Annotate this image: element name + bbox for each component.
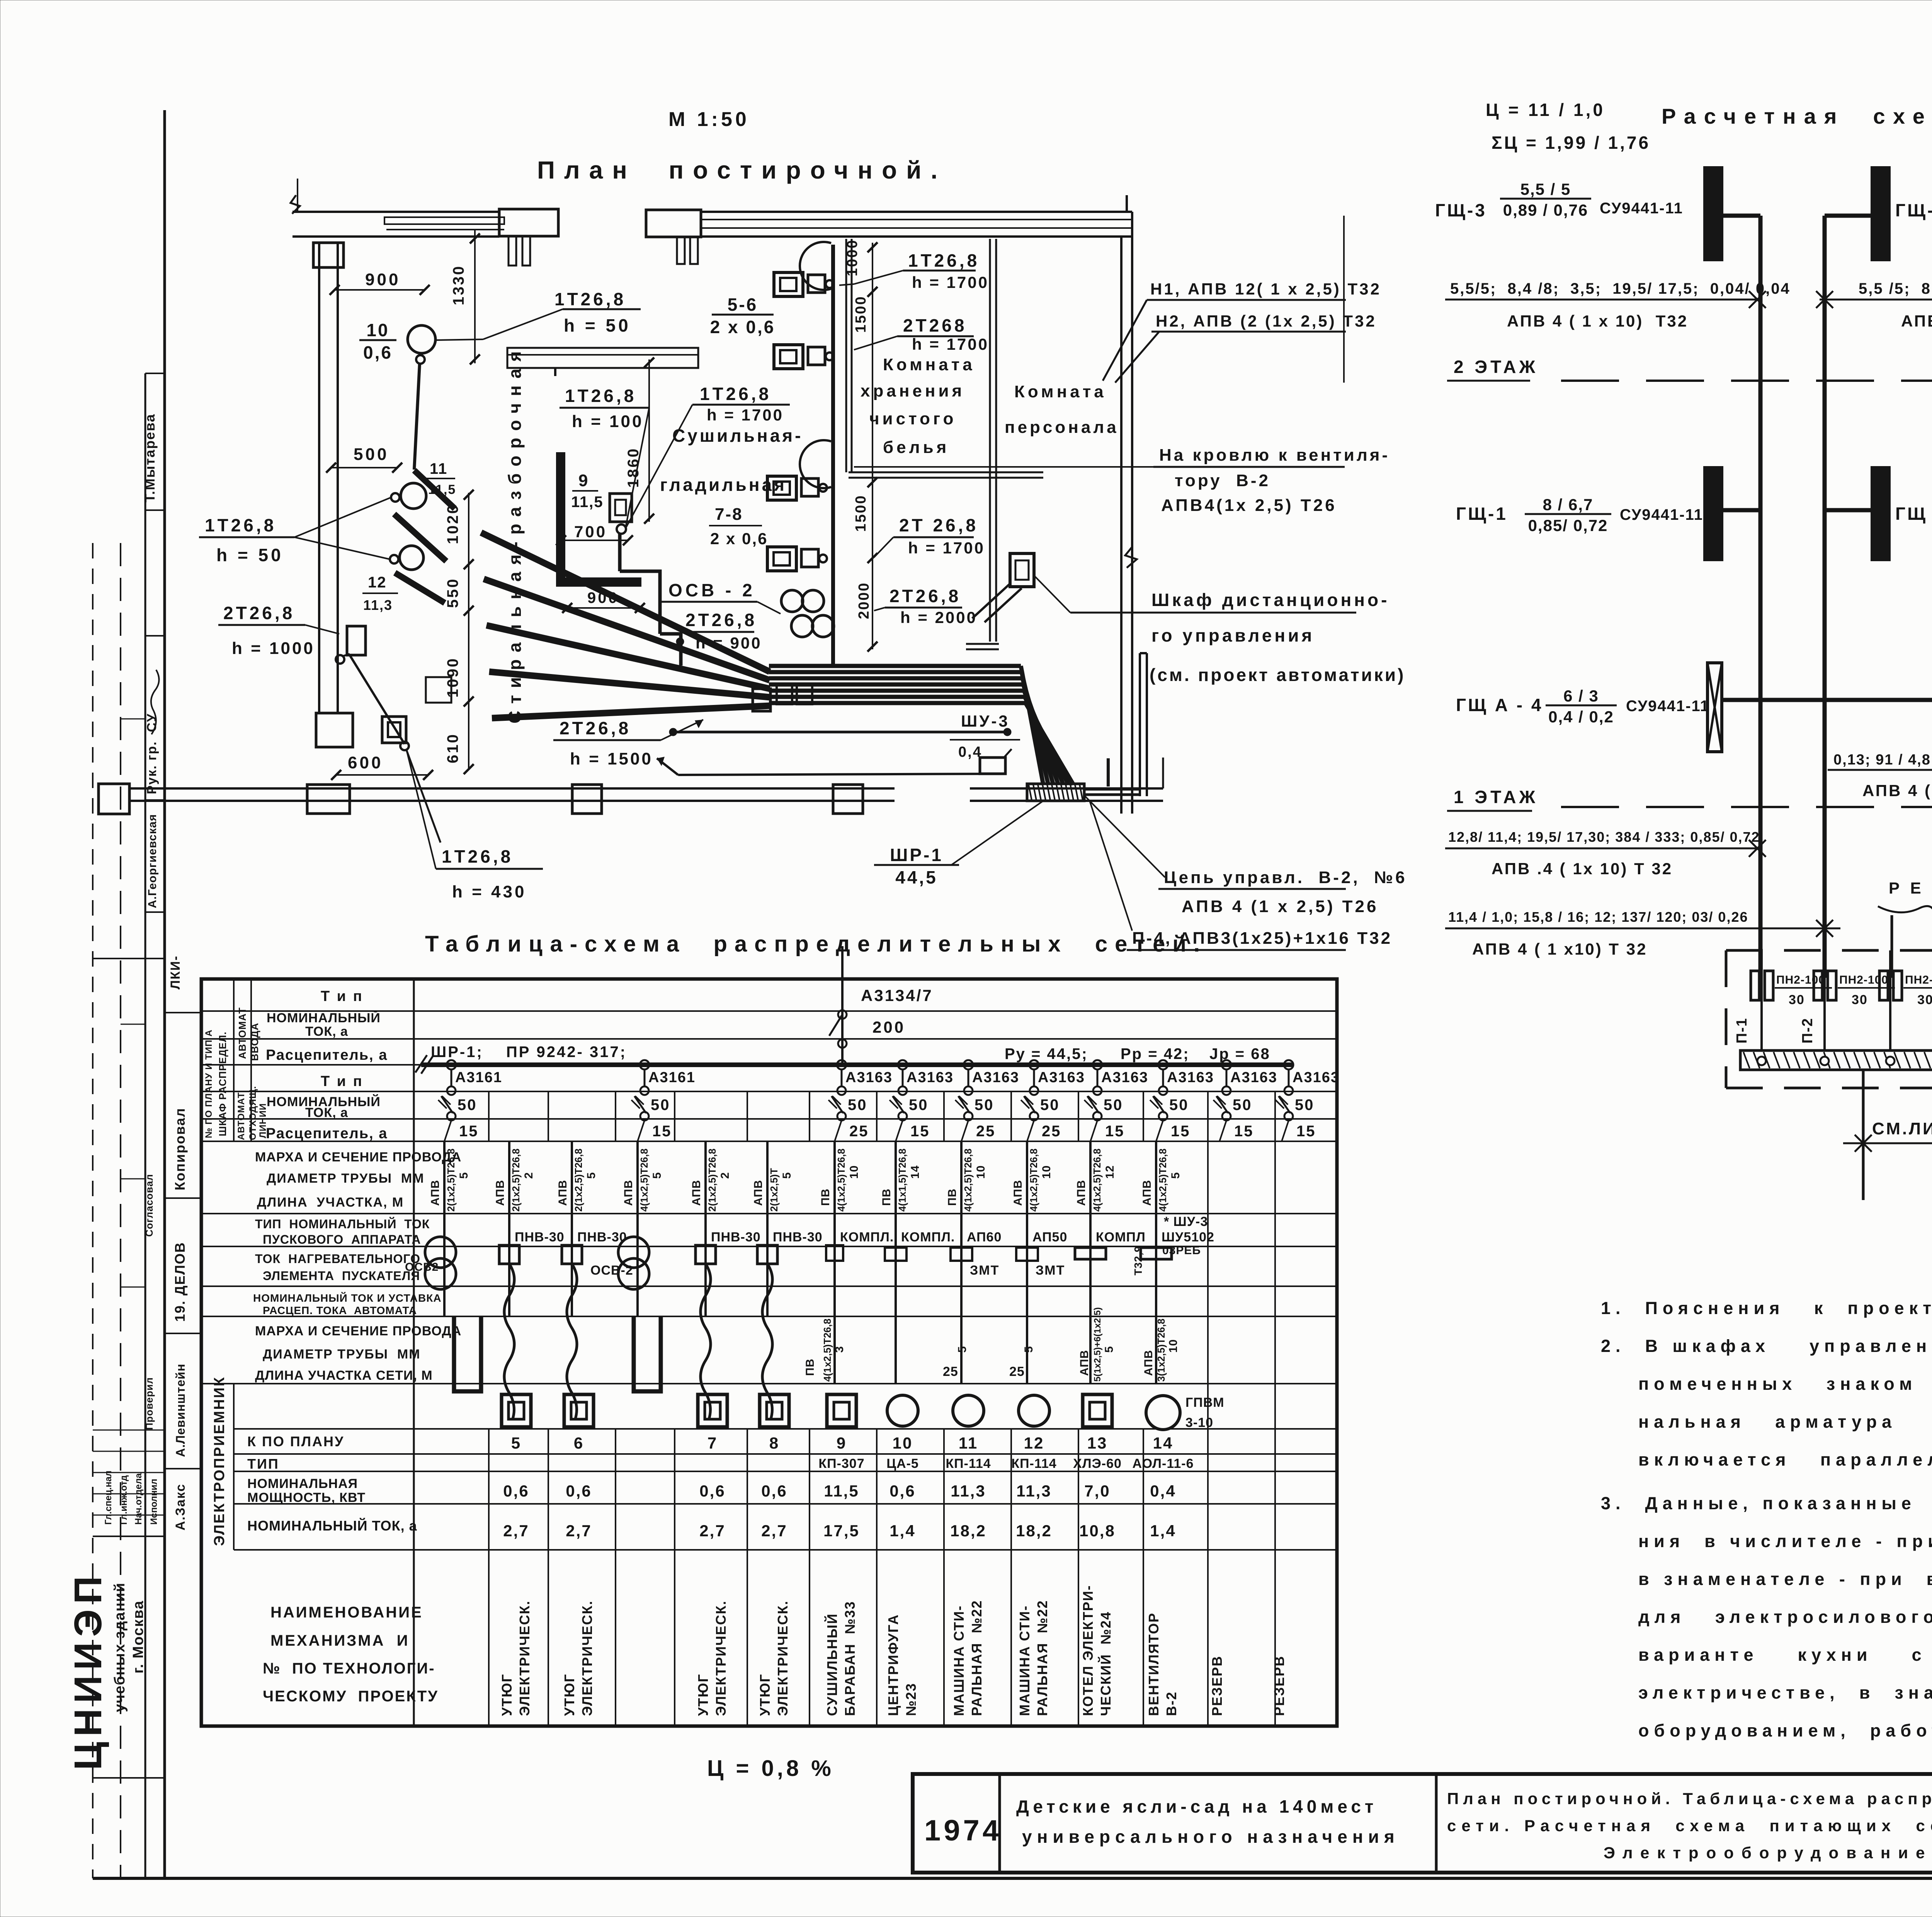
svg-text:25: 25 xyxy=(849,1123,869,1140)
svg-text:Гл.инж.отд: Гл.инж.отд xyxy=(119,1475,129,1525)
far right edge line xyxy=(1343,216,1345,383)
svg-text:ШУ-3: ШУ-3 xyxy=(961,712,1010,730)
svg-text:НОМИНАЛЬНЫЙ ТОК, а: НОМИНАЛЬНЫЙ ТОК, а xyxy=(247,1517,417,1534)
feeder drops through fuses xyxy=(1760,950,1763,1050)
svg-text:Комната: Комната xyxy=(883,355,975,374)
svg-text:1500: 1500 xyxy=(853,494,869,532)
svg-text:КОМПЛ.: КОМПЛ. xyxy=(840,1230,894,1245)
svg-text:50: 50 xyxy=(1169,1096,1189,1113)
svg-text:* ШУ-3: * ШУ-3 xyxy=(1164,1214,1208,1229)
svg-text:в знаменателе - при варианте: в знаменателе - при варианте с люминисце… xyxy=(1638,1569,1932,1589)
svg-text:h = 1500: h = 1500 xyxy=(570,749,653,768)
svg-text:УТЮГ: УТЮГ xyxy=(695,1674,711,1716)
svg-text:ЗМТ: ЗМТ xyxy=(970,1263,999,1278)
svg-text:АВТОМАТ: АВТОМАТ xyxy=(236,1007,248,1059)
svg-text:ЭЛЕКТРИЧЕСК.: ЭЛЕКТРИЧЕСК. xyxy=(713,1600,729,1716)
svg-text:0,89 / 0,76: 0,89 / 0,76 xyxy=(1503,201,1588,219)
bus row thick xyxy=(421,1062,1293,1067)
top wall right segment xyxy=(646,210,701,237)
svg-text:h = 2000: h = 2000 xyxy=(900,608,977,627)
svg-text:0,6: 0,6 xyxy=(503,1482,529,1500)
svg-text:1330: 1330 xyxy=(450,265,467,305)
svg-text:4(1х1,5)Т26,8: 4(1х1,5)Т26,8 xyxy=(896,1149,908,1212)
svg-text:АПВ 4 (1 х 10) Т32: АПВ 4 (1 х 10) Т32 xyxy=(1901,312,1932,330)
svg-text:Нач.отдела: Нач.отдела xyxy=(133,1473,144,1525)
svg-text:15: 15 xyxy=(910,1123,930,1140)
svg-text:ПВ: ПВ xyxy=(880,1188,893,1206)
svg-text:2,7: 2,7 xyxy=(503,1522,529,1540)
svg-text:200: 200 xyxy=(872,1018,905,1036)
pushbutton boxes xyxy=(753,689,770,711)
svg-text:1,4: 1,4 xyxy=(889,1522,915,1540)
svg-text:ПВ: ПВ xyxy=(946,1188,959,1206)
svg-text:15: 15 xyxy=(1171,1123,1190,1140)
svg-text:ЛКИ-: ЛКИ- xyxy=(168,955,183,989)
incomer breaker A3134/7 xyxy=(841,979,844,1065)
pusk row devices xyxy=(443,1214,446,1316)
svg-text:3(1х2,5)Т26,8: 3(1х2,5)Т26,8 xyxy=(1155,1319,1167,1382)
svg-text:ГЩ-3: ГЩ-3 xyxy=(1435,200,1487,220)
TITLE BLOCK xyxy=(913,1774,1932,1873)
svg-text:А3163: А3163 xyxy=(972,1069,1019,1086)
svg-text:МЕХАНИЗМА И: МЕХАНИЗМА И xyxy=(270,1632,409,1649)
svg-text:2(1х2,5)Т: 2(1х2,5)Т xyxy=(768,1168,780,1212)
svg-text:11,3: 11,3 xyxy=(1016,1482,1051,1500)
svg-text:1500: 1500 xyxy=(853,295,869,333)
svg-text:ПН2-100: ПН2-100 xyxy=(1839,974,1888,986)
panel GSch-2 xyxy=(1872,467,1889,560)
svg-text:учебных зданий: учебных зданий xyxy=(112,1582,128,1712)
svg-text:12: 12 xyxy=(1104,1165,1116,1179)
bus2 vertical xyxy=(1823,216,1827,978)
svg-text:3. Данные, показанные дроб: 3. Данные, показанные дробью, означают д… xyxy=(1601,1493,1932,1513)
svg-text:П-2: П-2 xyxy=(1799,1018,1816,1044)
svg-text:АПВ: АПВ xyxy=(1142,1350,1155,1376)
pier top wall left-right end xyxy=(499,209,558,236)
svg-text:50: 50 xyxy=(975,1096,994,1113)
svg-text:44,5: 44,5 xyxy=(895,867,938,887)
svg-text:БАРАБАН №33: БАРАБАН №33 xyxy=(842,1601,858,1716)
svg-text:1. Пояснения к проекту: 1. Пояснения к проекту и условные обозна… xyxy=(1601,1298,1932,1318)
svg-text:Т и п: Т и п xyxy=(321,988,364,1004)
svg-text:АПВ: АПВ xyxy=(1141,1180,1153,1206)
svg-text:5: 5 xyxy=(457,1172,470,1179)
svg-text:тору В-2: тору В-2 xyxy=(1175,471,1270,490)
svg-text:В-2: В-2 xyxy=(1163,1691,1179,1716)
svg-text:ЭЛЕКТРИЧЕСК.: ЭЛЕКТРИЧЕСК. xyxy=(775,1600,791,1716)
dim 1330 xyxy=(474,230,476,363)
svg-text:ОСВ-2: ОСВ-2 xyxy=(590,1263,633,1278)
svg-text:РЕЗЕРВ: РЕЗЕРВ xyxy=(1209,1655,1225,1716)
svg-text:Рр = 42;: Рр = 42; xyxy=(1121,1045,1190,1062)
svg-text:ПНВ-30: ПНВ-30 xyxy=(577,1230,627,1245)
svg-text:МАШИНА СТИ-: МАШИНА СТИ- xyxy=(951,1605,967,1716)
svg-text:15: 15 xyxy=(1296,1123,1316,1140)
svg-text:РАЛЬНАЯ №22: РАЛЬНАЯ №22 xyxy=(1034,1600,1050,1716)
svg-text:Электрооборудование.: Электрооборудование. xyxy=(1604,1844,1932,1862)
svg-text:КОМПЛ.: КОМПЛ. xyxy=(901,1230,955,1245)
svg-text:ВЕНТИЛЯТОР: ВЕНТИЛЯТОР xyxy=(1146,1612,1162,1716)
svg-text:2Т268: 2Т268 xyxy=(903,315,967,335)
svg-text:4(1х2,5)Т26,8: 4(1х2,5)Т26,8 xyxy=(1091,1149,1103,1212)
svg-text:25: 25 xyxy=(1042,1123,1061,1140)
svg-text:0,4: 0,4 xyxy=(1150,1482,1176,1500)
svg-text:НОМИНАЛЬНАЯ: НОМИНАЛЬНАЯ xyxy=(247,1476,358,1491)
svg-text:А3163: А3163 xyxy=(1230,1069,1277,1086)
svg-text:h = 1700: h = 1700 xyxy=(912,335,989,353)
svg-text:0,6: 0,6 xyxy=(699,1482,725,1500)
svg-text:1 ЭТАЖ: 1 ЭТАЖ xyxy=(1454,787,1538,807)
svg-text:АПВ: АПВ xyxy=(556,1180,569,1206)
svg-text:3-10: 3-10 xyxy=(1185,1415,1213,1430)
svg-text:Т.Мытарева: Т.Мытарева xyxy=(142,414,158,502)
svg-text:2,7: 2,7 xyxy=(761,1522,787,1540)
svg-text:СУ9441-11: СУ9441-11 xyxy=(1626,698,1709,715)
svg-text:ПН2-100: ПН2-100 xyxy=(1776,974,1825,986)
svg-text:ПВ: ПВ xyxy=(804,1359,816,1376)
left pier xyxy=(313,243,344,267)
svg-text:ДЛИНА УЧАСТКА, М: ДЛИНА УЧАСТКА, М xyxy=(257,1195,404,1210)
svg-text:включается параллельно кат: включается параллельно катушке. xyxy=(1638,1450,1932,1469)
svg-text:2 х 0,6: 2 х 0,6 xyxy=(710,529,768,548)
svg-text:ШР-1;: ШР-1; xyxy=(431,1044,483,1061)
svg-text:550: 550 xyxy=(444,577,461,608)
svg-text:5,5 /5; 8,4 ( 8; 3,5; 19,5/: 5,5 /5; 8,4 ( 8; 3,5; 19,5/ 17,5; 0,04 xyxy=(1859,280,1932,297)
vertical pipe right xyxy=(1139,653,1141,796)
svg-text:СУ9441-11: СУ9441-11 xyxy=(1600,200,1683,217)
svg-text:ГПВМ: ГПВМ xyxy=(1185,1395,1225,1410)
svg-text:0,13; 91 / 4,8; 30; 180) 90; 0: 0,13; 91 / 4,8; 30; 180) 90; 0,4 / 0,2 xyxy=(1833,752,1932,768)
svg-text:АПВ: АПВ xyxy=(1075,1180,1088,1206)
right wall xyxy=(1120,237,1122,814)
svg-text:Расчетная схема питающих се: Расчетная схема питающих сетей xyxy=(1662,104,1932,128)
svg-text:помеченных знаком *), допо: помеченных знаком *), дополнительно уста… xyxy=(1638,1374,1932,1394)
svg-text:10,8: 10,8 xyxy=(1079,1522,1116,1540)
wall cabinet device xyxy=(1010,553,1034,587)
svg-text:h = 1700: h = 1700 xyxy=(912,273,989,291)
svg-text:ЭЛЕКТРОПРИЕМНИК: ЭЛЕКТРОПРИЕМНИК xyxy=(211,1376,228,1546)
svg-text:А3161: А3161 xyxy=(455,1069,502,1086)
svg-text:СУ9441-11: СУ9441-11 xyxy=(1620,506,1703,523)
svg-text:ПН2-100: ПН2-100 xyxy=(1905,974,1932,986)
SHR leaders right xyxy=(1085,796,1165,877)
svg-text:Гл.спец.нал: Гл.спец.нал xyxy=(103,1471,114,1525)
svg-text:1020: 1020 xyxy=(444,504,461,544)
svg-text:4(1х2,5)Т26,8: 4(1х2,5)Т26,8 xyxy=(638,1149,650,1212)
svg-text:АП50: АП50 xyxy=(1032,1230,1067,1245)
svg-text:18,2: 18,2 xyxy=(1016,1522,1052,1540)
svg-text:АП60: АП60 xyxy=(967,1230,1002,1245)
svg-text:1Т26,8: 1Т26,8 xyxy=(565,386,636,406)
svg-text:4(1х2,5)Т26,8: 4(1х2,5)Т26,8 xyxy=(1157,1149,1168,1212)
pnv boxes xyxy=(508,1214,510,1316)
main wire bundle xyxy=(769,664,1021,668)
svg-text:ПНВ-30: ПНВ-30 xyxy=(711,1230,761,1245)
svg-text:ШУ5102: ШУ5102 xyxy=(1162,1230,1214,1245)
svg-text:11,5: 11,5 xyxy=(571,494,604,511)
svg-text:03РЕБ: 03РЕБ xyxy=(1162,1244,1201,1257)
svg-text:КОТЕЛ ЭЛЕКТРИ-: КОТЕЛ ЭЛЕКТРИ- xyxy=(1080,1585,1096,1716)
svg-text:25: 25 xyxy=(943,1364,958,1379)
svg-text:ЧЕСКИЙ №24: ЧЕСКИЙ №24 xyxy=(1097,1611,1114,1716)
svg-text:ЭЛЕМЕНТА ПУСКАТЕЛЯ: ЭЛЕМЕНТА ПУСКАТЕЛЯ xyxy=(263,1269,420,1283)
svg-text:ПР 9242- 317;: ПР 9242- 317; xyxy=(506,1044,627,1061)
SHU-3 wire xyxy=(672,731,1007,734)
svg-text:h = 1700: h = 1700 xyxy=(707,406,784,424)
svg-text:ЦЕНТРИФУГА: ЦЕНТРИФУГА xyxy=(885,1614,901,1716)
bundle link to pipe xyxy=(1107,758,1110,787)
VRU dashed box xyxy=(1726,949,1932,952)
svg-text:ЭЛЕКТРИЧЕСК.: ЭЛЕКТРИЧЕСК. xyxy=(517,1600,532,1716)
svg-text:h = 50: h = 50 xyxy=(216,545,284,565)
svg-text:г. Москва: г. Москва xyxy=(130,1600,146,1674)
svg-text:РЕЗЕРВ: РЕЗЕРВ xyxy=(1271,1655,1287,1716)
svg-text:Н1, АПВ 12( 1 х 2,5) Т32: Н1, АПВ 12( 1 х 2,5) Т32 xyxy=(1150,280,1381,298)
svg-text:2,7: 2,7 xyxy=(699,1522,725,1540)
panel GSch-3 xyxy=(1704,167,1722,260)
svg-text:2 х 0,6: 2 х 0,6 xyxy=(710,317,776,337)
svg-text:Т32,9: Т32,9 xyxy=(1132,1246,1144,1275)
svg-text:12,8/ 11,4; 19,5/ 17,30; 384 /: 12,8/ 11,4; 19,5/ 17,30; 384 / 333; 0,85… xyxy=(1448,829,1760,845)
svg-text:Рук. гр. СУ: Рук. гр. СУ xyxy=(145,713,159,794)
osv transformers xyxy=(781,590,803,612)
dim 1860 xyxy=(648,359,650,522)
svg-text:8: 8 xyxy=(769,1434,779,1452)
svg-text:7: 7 xyxy=(707,1434,718,1452)
svg-text:1Т26,8: 1Т26,8 xyxy=(554,289,626,309)
bar connection circles xyxy=(1757,1057,1766,1065)
svg-text:А3163: А3163 xyxy=(1167,1069,1214,1086)
svg-text:5: 5 xyxy=(651,1172,663,1179)
svg-text:8 / 6,7: 8 / 6,7 xyxy=(1543,495,1594,514)
svg-text:2(1х2,5)Т26,8: 2(1х2,5)Т26,8 xyxy=(706,1149,718,1212)
svg-text:17,5: 17,5 xyxy=(823,1522,860,1540)
panel GSch-4 xyxy=(1872,167,1889,260)
svg-text:АПВ 4 (1 х 2,5) Т26: АПВ 4 (1 х 2,5) Т26 xyxy=(1182,897,1378,916)
svg-text:50: 50 xyxy=(1104,1096,1123,1113)
svg-text:МАРХА И СЕЧЕНИЕ ПРОВОДА: МАРХА И СЕЧЕНИЕ ПРОВОДА xyxy=(255,1150,461,1165)
svg-text:15: 15 xyxy=(1234,1123,1254,1140)
machine arcs xyxy=(800,242,831,290)
svg-text:ТОК, а: ТОК, а xyxy=(305,1105,348,1120)
svg-text:Согласовал: Согласовал xyxy=(143,1174,155,1237)
svg-text:ДИАМЕТР ТРУБЫ ММ: ДИАМЕТР ТРУБЫ ММ xyxy=(267,1171,425,1186)
svg-text:50: 50 xyxy=(848,1096,867,1113)
svg-text:КП-114: КП-114 xyxy=(1011,1456,1056,1471)
square fixture xyxy=(426,677,451,703)
svg-text:11,3: 11,3 xyxy=(363,597,393,613)
svg-text:5: 5 xyxy=(1103,1346,1116,1353)
svg-text:ОТХОДЯЩ.: ОТХОДЯЩ. xyxy=(248,1086,258,1140)
svg-text:Исполнил: Исполнил xyxy=(149,1479,159,1525)
panel GSch-1 xyxy=(1704,467,1722,560)
svg-text:Стиральная-разборочная: Стиральная-разборочная xyxy=(505,344,525,724)
svg-text:11,4 / 1,0; 15,8 / 16; 12; 137: 11,4 / 1,0; 15,8 / 16; 12; 137/ 120; 03/… xyxy=(1448,909,1748,925)
svg-text:Ру = 44,5;: Ру = 44,5; xyxy=(1005,1045,1088,1062)
svg-text:КП-307: КП-307 xyxy=(818,1456,864,1471)
svg-text:ПУСКОВОГО АППАРАТА: ПУСКОВОГО АППАРАТА xyxy=(263,1233,421,1246)
svg-text:h = 50: h = 50 xyxy=(564,315,631,335)
svg-text:12: 12 xyxy=(368,574,387,591)
svg-text:50: 50 xyxy=(909,1096,929,1113)
svg-text:11,5: 11,5 xyxy=(428,482,456,497)
receivers xyxy=(454,1316,481,1391)
breakers on bus xyxy=(447,1060,456,1069)
svg-text:10: 10 xyxy=(893,1434,913,1452)
fuse PN2-100 #2 xyxy=(1814,971,1822,1000)
svg-text:П-1: П-1 xyxy=(1734,1018,1750,1044)
svg-text:ТИП НОМИНАЛЬНЫЙ ТОК: ТИП НОМИНАЛЬНЫЙ ТОК xyxy=(255,1217,430,1231)
top wall left segment xyxy=(291,195,300,214)
svg-text:Т и п: Т и п xyxy=(321,1073,364,1090)
svg-text:АПВ: АПВ xyxy=(690,1180,703,1206)
svg-text:ПНВ-30: ПНВ-30 xyxy=(515,1230,565,1245)
svg-text:0,6: 0,6 xyxy=(363,342,393,363)
shelf xyxy=(507,348,698,368)
svg-text:2Т26,8: 2Т26,8 xyxy=(685,610,757,630)
svg-text:№ ПО ТЕХНОЛОГИ-: № ПО ТЕХНОЛОГИ- xyxy=(263,1660,435,1677)
svg-text:1000: 1000 xyxy=(844,239,861,276)
svg-text:14: 14 xyxy=(909,1165,922,1179)
svg-text:0,6: 0,6 xyxy=(566,1482,592,1500)
svg-text:хранения: хранения xyxy=(861,381,965,400)
svg-text:0,6: 0,6 xyxy=(761,1482,787,1500)
svg-text:ШКАФ РАСПРЕДЕЛ.: ШКАФ РАСПРЕДЕЛ. xyxy=(217,1032,228,1136)
svg-text:18,2: 18,2 xyxy=(950,1522,986,1540)
svg-text:900: 900 xyxy=(365,270,400,289)
receptacle 13/7.0 xyxy=(382,717,406,743)
svg-text:№ ПО ПЛАНУ И ТИП А: № ПО ПЛАНУ И ТИП А xyxy=(204,1030,214,1138)
svg-text:Проверил: Проверил xyxy=(143,1377,155,1430)
svg-text:А3161: А3161 xyxy=(648,1069,696,1086)
svg-text:5(1х2,5)+6(1х2,5): 5(1х2,5)+6(1х2,5) xyxy=(1092,1307,1103,1382)
left wall xyxy=(318,243,320,713)
svg-text:варианте кухни с оборудо: варианте кухни с оборудованием, работающ… xyxy=(1638,1645,1932,1665)
svg-text:2Т26,8: 2Т26,8 xyxy=(560,718,631,738)
svg-text:50: 50 xyxy=(1295,1096,1315,1113)
svg-text:АПВ4(1х 2,5) Т26: АПВ4(1х 2,5) Т26 xyxy=(1161,496,1337,515)
svg-text:2Т 26,8: 2Т 26,8 xyxy=(899,515,978,535)
fuse PN2-100 #1 xyxy=(1751,971,1759,1000)
svg-text:Сушильная-: Сушильная- xyxy=(672,426,803,446)
incomer to table xyxy=(841,946,844,979)
svg-text:го управления: го управления xyxy=(1151,625,1315,645)
svg-text:7-8: 7-8 xyxy=(715,505,743,524)
svg-text:6 / 3: 6 / 3 xyxy=(1563,687,1599,705)
svg-text:НОМИНАЛЬНЫЙ ТОК И УСТАВКА: НОМИНАЛЬНЫЙ ТОК И УСТАВКА xyxy=(253,1292,442,1304)
svg-text:4(1х2,5)Т26,8: 4(1х2,5)Т26,8 xyxy=(821,1319,833,1382)
svg-text:3: 3 xyxy=(833,1346,846,1353)
washing machines rows xyxy=(774,272,803,296)
svg-text:АВТОМАТ: АВТОМАТ xyxy=(236,1092,247,1140)
svg-text:ПНВ-30: ПНВ-30 xyxy=(773,1230,823,1245)
svg-text:Таблица-схема распределительн: Таблица-схема распределительных сетей. xyxy=(425,931,1207,957)
svg-text:ТОК НАГРЕВАТЕЛЬНОГО: ТОК НАГРЕВАТЕЛЬНОГО xyxy=(255,1252,420,1266)
svg-text:5: 5 xyxy=(1022,1346,1035,1353)
svg-text:5: 5 xyxy=(585,1172,598,1179)
svg-text:2(1х2,5)Т26,8: 2(1х2,5)Т26,8 xyxy=(510,1149,522,1212)
svg-text:АПВ 4 ( 1 х 10) Т32: АПВ 4 ( 1 х 10) Т32 xyxy=(1507,312,1688,330)
bus1 vertical xyxy=(1759,216,1763,978)
leader to SHR label xyxy=(951,801,1043,865)
svg-text:11,3: 11,3 xyxy=(951,1482,986,1500)
dim chain vertical xyxy=(468,493,469,769)
lower thin wire with arrow xyxy=(678,774,1004,775)
svg-text:АОЛ-11-6: АОЛ-11-6 xyxy=(1132,1456,1194,1471)
svg-text:ТИП: ТИП xyxy=(247,1456,279,1472)
svg-text:АПВ: АПВ xyxy=(1078,1350,1091,1376)
svg-text:ДЛИНА УЧАСТКА СЕТИ, М: ДЛИНА УЧАСТКА СЕТИ, М xyxy=(255,1368,433,1383)
svg-text:А.Левинштейн: А.Левинштейн xyxy=(173,1364,187,1457)
svg-text:ΣЦ = 1,99 / 1,76: ΣЦ = 1,99 / 1,76 xyxy=(1492,133,1650,153)
svg-text:1Т26,8: 1Т26,8 xyxy=(205,515,276,535)
svg-text:К ПО ПЛАНУ: К ПО ПЛАНУ xyxy=(247,1433,344,1449)
svg-text:Детские ясли-сад на 140мест: Детские ясли-сад на 140мест xyxy=(1016,1796,1377,1817)
L-shaped wall stub xyxy=(556,452,565,577)
svg-text:А.Закс: А.Закс xyxy=(173,1483,188,1531)
svg-text:2: 2 xyxy=(522,1172,535,1179)
svg-text:АПВ 4 ( 1 х10) Т 32: АПВ 4 ( 1 х10) Т 32 xyxy=(1472,940,1647,958)
svg-text:25: 25 xyxy=(976,1123,996,1140)
svg-text:НАИМЕНОВАНИЕ: НАИМЕНОВАНИЕ xyxy=(270,1604,423,1621)
svg-text:НОМИНАЛЬНЫЙ: НОМИНАЛЬНЫЙ xyxy=(267,1010,381,1025)
svg-text:План постирочной. Таблица-схем: План постирочной. Таблица-схема распреде… xyxy=(1447,1789,1932,1808)
svg-text:для электросилового оборуд: для электросилового оборудования, в числ… xyxy=(1638,1607,1932,1627)
svg-text:2Т26,8: 2Т26,8 xyxy=(889,586,961,606)
svg-text:белья: белья xyxy=(883,438,949,457)
svg-text:оборудованием, работающим: оборудованием, работающим на газе. xyxy=(1638,1721,1932,1740)
storage south wall xyxy=(849,472,1043,473)
fan diagonals xyxy=(481,533,770,672)
svg-text:4(1х2,5)Т26,8: 4(1х2,5)Т26,8 xyxy=(835,1149,847,1212)
svg-text:50: 50 xyxy=(1040,1096,1060,1113)
svg-text:Јр = 68: Јр = 68 xyxy=(1209,1045,1270,1062)
svg-text:50: 50 xyxy=(651,1096,670,1113)
svg-text:ШР-1: ШР-1 xyxy=(890,845,943,865)
svg-text:5,5/5; 8,4 /8; 3,5; 19,5/ 1: 5,5/5; 8,4 /8; 3,5; 19,5/ 17,5; 0,04/ 0,… xyxy=(1450,280,1791,297)
svg-text:0,85/ 0,72: 0,85/ 0,72 xyxy=(1528,516,1608,535)
svg-text:КОМПЛ: КОМПЛ xyxy=(1096,1230,1146,1245)
fuse PN2-100 #3 xyxy=(1879,971,1888,1000)
riser3 from GschA-4 xyxy=(1722,700,1932,978)
svg-text:универсального назначения: универсального назначения xyxy=(1022,1827,1400,1847)
breaker drop wires / marks zone1 xyxy=(443,1141,446,1214)
bus bars hatched xyxy=(1740,1050,1932,1070)
wall break xyxy=(1125,547,1137,568)
svg-text:ЗМТ: ЗМТ xyxy=(1036,1263,1065,1278)
svg-text:4(1х2,5)Т26,8: 4(1х2,5)Т26,8 xyxy=(1028,1149,1039,1212)
svg-text:1,4: 1,4 xyxy=(1150,1522,1176,1540)
svg-text:А3163: А3163 xyxy=(1293,1069,1340,1086)
svg-text:АПВ: АПВ xyxy=(752,1180,765,1206)
machines wire vertical xyxy=(831,245,835,665)
svg-text:h = 100: h = 100 xyxy=(572,412,643,431)
lamp 12 xyxy=(400,546,423,570)
svg-text:19. ДЕЛОВ: 19. ДЕЛОВ xyxy=(172,1242,188,1322)
svg-text:h = 1000: h = 1000 xyxy=(232,639,315,658)
svg-text:МАРХА И СЕЧЕНИЕ ПРОВОДА: МАРХА И СЕЧЕНИЕ ПРОВОДА xyxy=(255,1324,461,1338)
svg-text:5: 5 xyxy=(781,1172,793,1179)
svg-text:14: 14 xyxy=(1153,1434,1173,1452)
thick L-wires xyxy=(618,534,622,571)
svg-text:30: 30 xyxy=(1852,993,1868,1007)
svg-text:500: 500 xyxy=(354,445,389,464)
svg-text:2(1х2,5)Т26,8: 2(1х2,5)Т26,8 xyxy=(445,1149,457,1212)
svg-text:Ц = 0,8 %: Ц = 0,8 % xyxy=(707,1756,834,1781)
svg-text:На кровлю к вентиля-: На кровлю к вентиля- xyxy=(1159,446,1390,465)
svg-text:План постирочной.: План постирочной. xyxy=(537,156,947,184)
svg-text:h = 1700: h = 1700 xyxy=(908,539,985,557)
